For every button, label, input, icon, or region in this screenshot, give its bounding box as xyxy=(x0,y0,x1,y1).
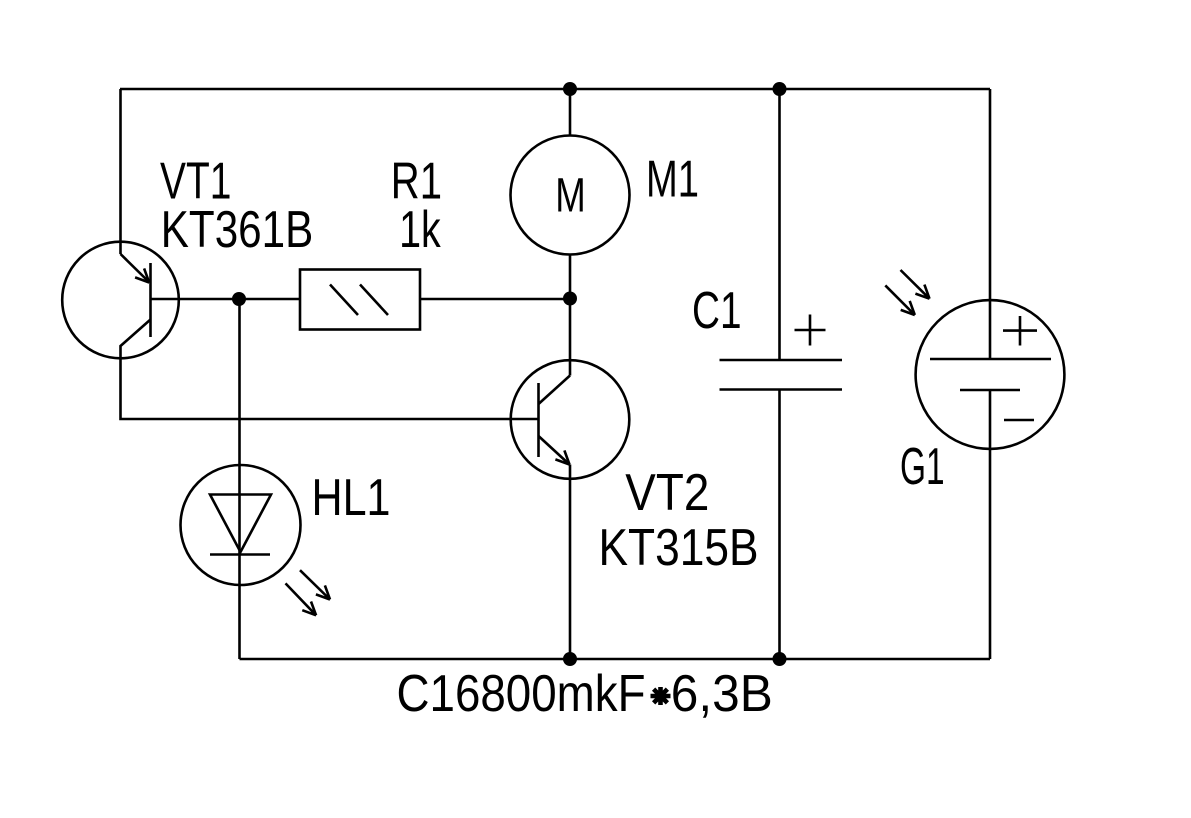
transistor VT2 emitter arrowhead xyxy=(555,450,569,464)
resistor R1 body xyxy=(300,270,420,330)
wire top rail xyxy=(120,88,990,91)
motor M1 circle xyxy=(511,136,630,255)
wire bottom rail xyxy=(240,658,991,661)
transistor VT1 collector diagonal and wire to VT2 base xyxy=(121,320,539,420)
transistor Q2 VT2 circle xyxy=(511,360,630,479)
wire node A to R1 xyxy=(239,298,300,301)
wire R1 to node B xyxy=(420,298,570,301)
svg-text:6,3B: 6,3B xyxy=(671,665,773,723)
solar cell G1 long plate xyxy=(930,358,1051,361)
svg-text:KT361B: KT361B xyxy=(161,201,313,259)
transistor VT2 emitter diagonal xyxy=(539,436,570,465)
wire node A down through HL1 to bottom rail xyxy=(238,299,241,659)
wire VT1 base to node A xyxy=(151,298,240,301)
svg-text:G1: G1 xyxy=(900,438,945,496)
svg-text:C16800mkF: C16800mkF xyxy=(397,665,646,723)
transistor Q1 VT1 circle xyxy=(62,242,179,359)
wire C1 bottom lead xyxy=(778,390,781,660)
svg-text:HL1: HL1 xyxy=(312,469,391,527)
resistor R1 diagonal marks xyxy=(330,285,388,316)
svg-text:1k: 1k xyxy=(399,201,441,259)
wire G1 bottom lead xyxy=(989,390,992,659)
wire motor bottom lead xyxy=(569,255,572,300)
solar cell G1 plus sign xyxy=(1003,316,1037,346)
svg-text:VT2: VT2 xyxy=(625,464,709,522)
capacitor C1 bottom plate xyxy=(720,388,843,391)
svg-text:C1: C1 xyxy=(692,282,742,340)
caption star symbol xyxy=(651,687,671,705)
transistor VT1 emitter arrowhead xyxy=(135,268,149,282)
wire G1 top lead xyxy=(989,89,992,359)
capacitor C1 top plate xyxy=(720,359,843,362)
transistor VT2 base bar xyxy=(537,383,540,457)
wire VT2 emitter to bottom rail xyxy=(569,465,572,660)
solar cell G1 light arrow 2 xyxy=(885,285,915,315)
wire left vertical (VT1 emitter lead) xyxy=(119,89,122,254)
solar cell G1 short plate xyxy=(960,389,1020,392)
wire motor top lead xyxy=(569,89,572,136)
junction dot top rail / C1 xyxy=(773,82,787,96)
solar cell G1 light arrow 1 xyxy=(901,270,930,299)
transistor VT2 collector diagonal xyxy=(539,376,571,405)
LED HL1 light arrow 2 xyxy=(286,583,317,615)
junction dot bottom rail / VT2 xyxy=(563,652,577,666)
junction dot top rail / motor xyxy=(563,82,577,96)
svg-text:KT315B: KT315B xyxy=(599,519,759,577)
solar cell G1 circle xyxy=(916,300,1065,449)
LED HL1 light arrow 1 xyxy=(300,570,330,599)
capacitor C1 plus sign xyxy=(795,315,826,346)
transistor VT1 base bar xyxy=(149,263,152,337)
node A junction dot xyxy=(232,292,246,306)
svg-text:M1: M1 xyxy=(646,151,699,209)
transistor VT1 emitter diagonal xyxy=(121,254,150,283)
LED HL1 cathode bar xyxy=(210,553,270,556)
solar cell G1 minus sign xyxy=(1004,419,1034,422)
junction dot bottom rail / C1 xyxy=(773,652,787,666)
wire C1 top lead xyxy=(778,89,781,360)
svg-text:M: M xyxy=(555,170,586,223)
LED HL1 triangle anode xyxy=(210,495,271,553)
node B junction dot xyxy=(563,292,577,306)
wire node B to VT2 collector xyxy=(569,299,572,376)
LED HL1 circle xyxy=(181,465,301,585)
